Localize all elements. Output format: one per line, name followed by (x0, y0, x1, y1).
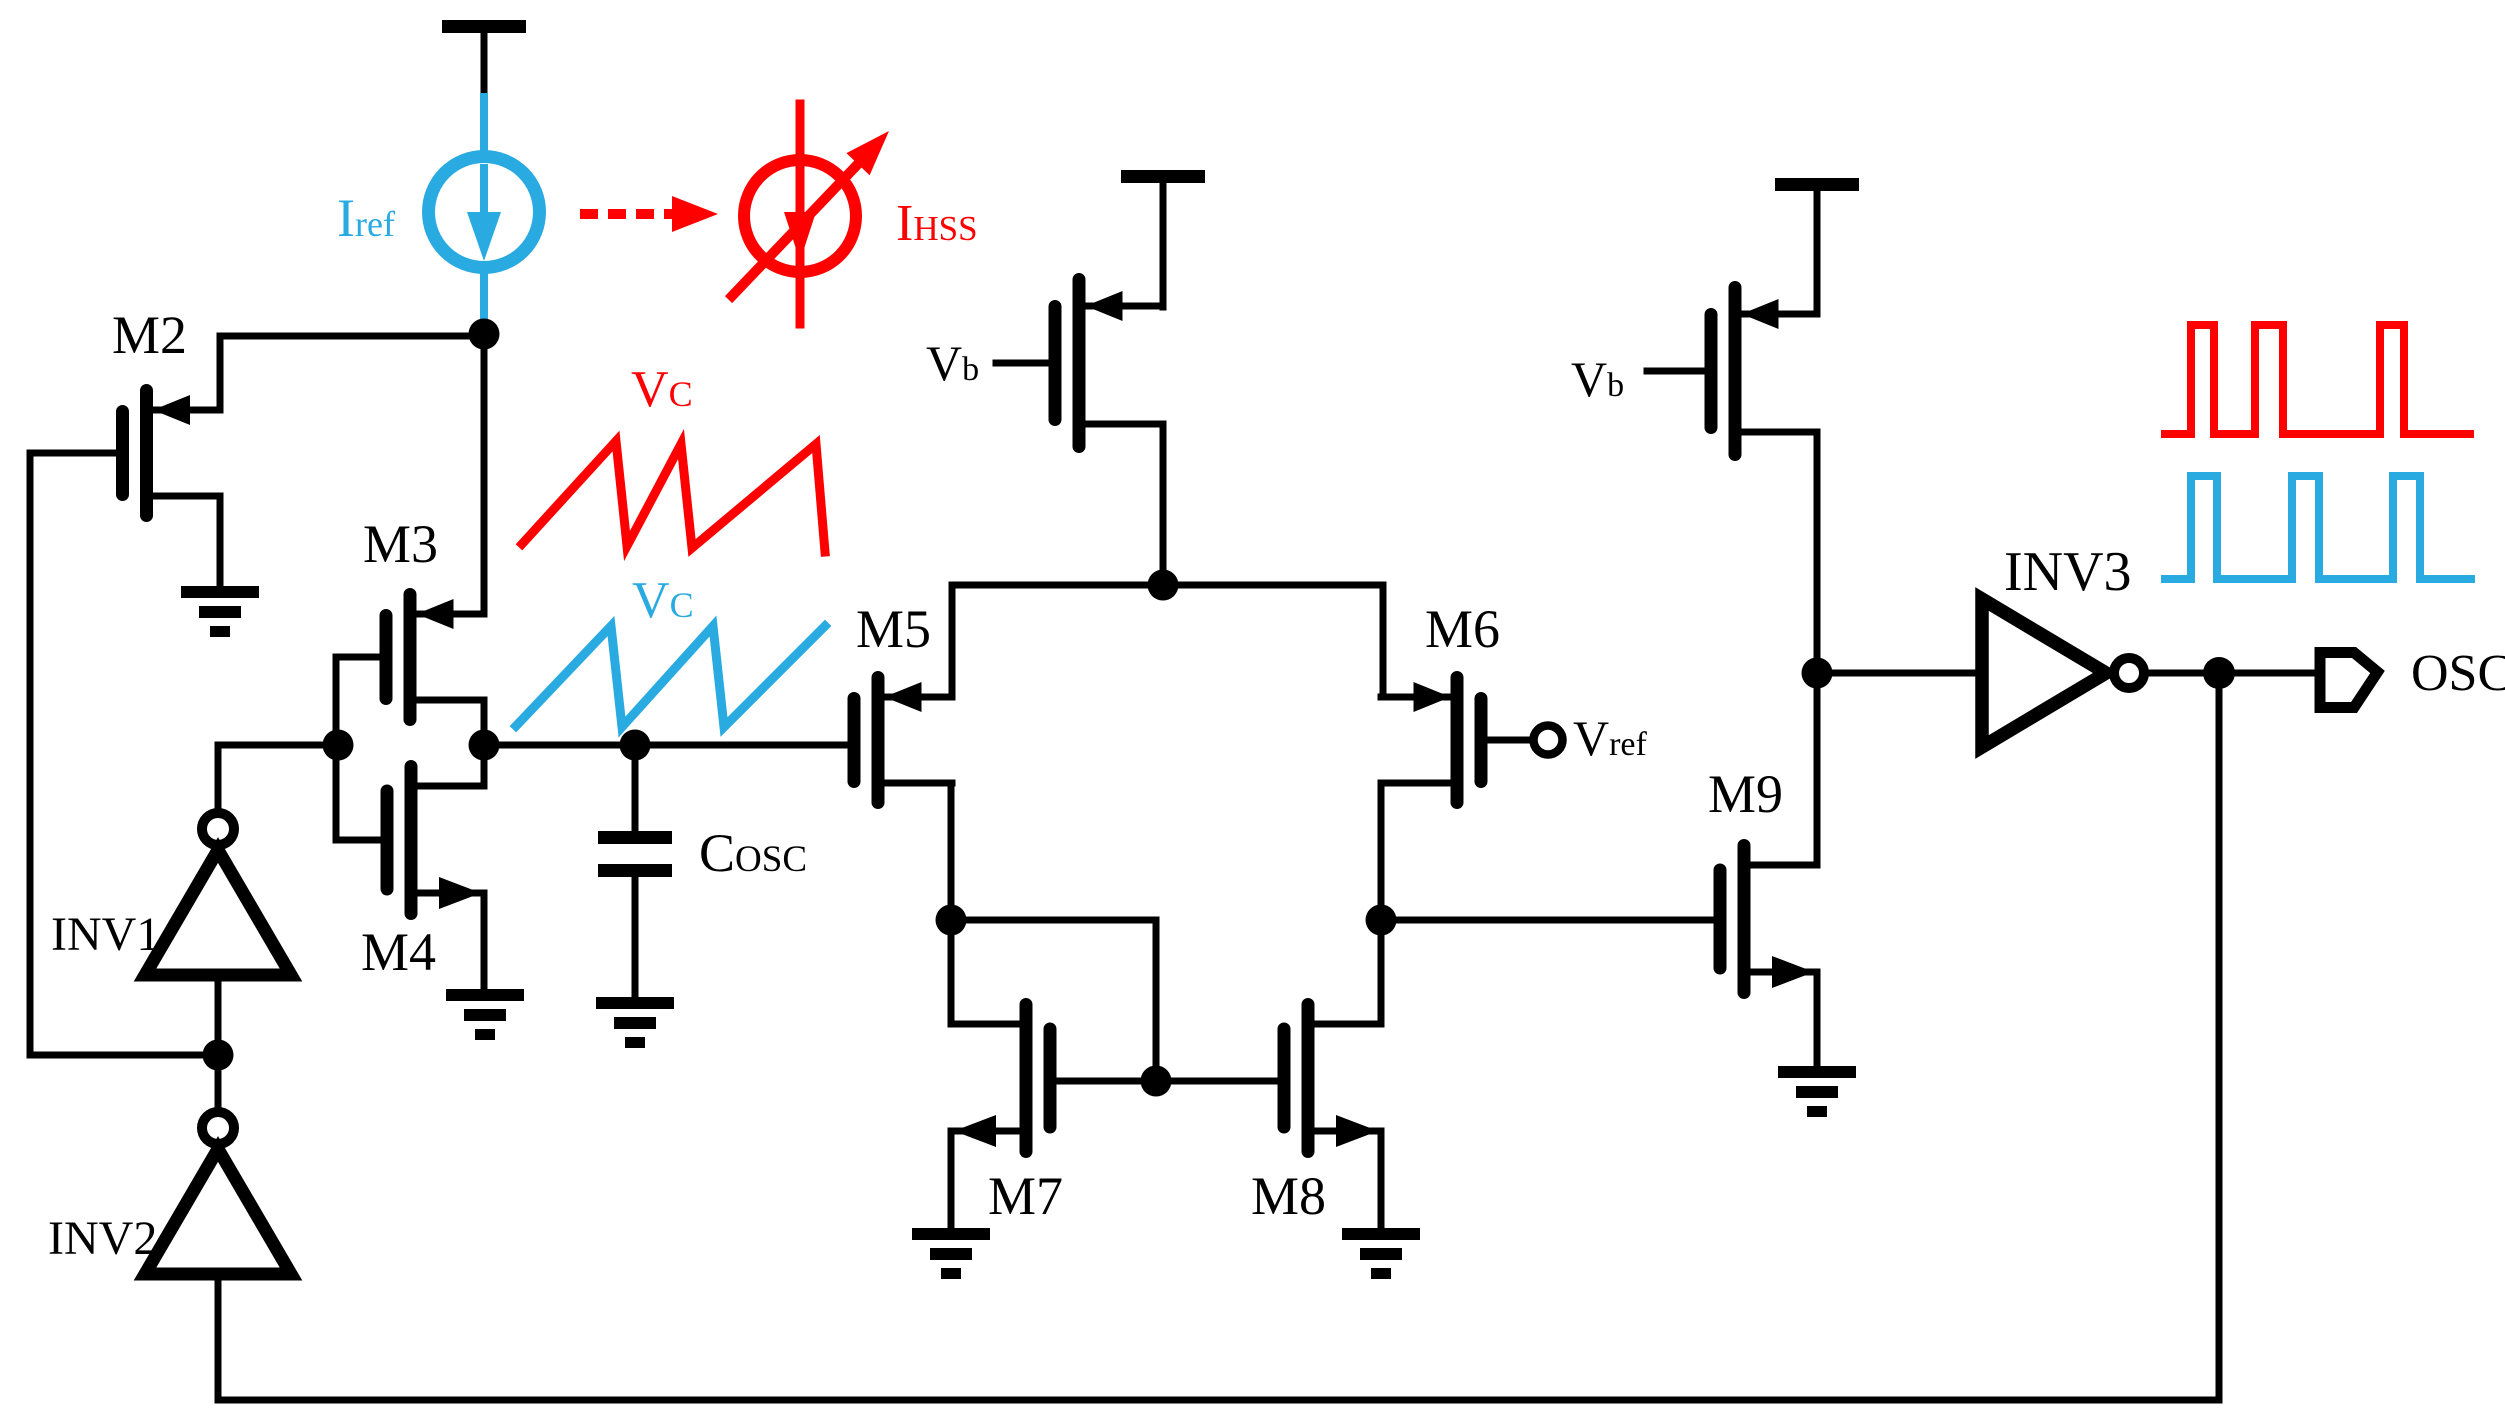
wire node D to M5 gate (Vc) (484, 742, 848, 749)
transistor M9 (1714, 839, 1818, 999)
terminal OSC marker (2320, 653, 2378, 708)
wire INV3 output (2144, 670, 2317, 677)
wire node C to M4 gate (333, 745, 340, 840)
node A (Iref / M2 / M3 drain) (469, 319, 500, 350)
svg-text:INV3: INV3 (2004, 541, 2132, 603)
ground (M2) (181, 586, 259, 637)
transistor M4 (381, 760, 485, 920)
wire Iref bottom (blue) (480, 266, 488, 326)
square waveform OSC (red) (2165, 325, 2470, 434)
dashed red arrow (Iref to IHSS) (580, 196, 718, 232)
svg-text:M5: M5 (856, 599, 931, 659)
transistor M7 (951, 998, 1057, 1158)
inverter INV2 (145, 1112, 291, 1274)
wire Vb mid gate stub (996, 360, 1055, 367)
power rail VDD (top right) (1775, 178, 1859, 314)
wire mirror gate tap (951, 920, 1156, 1081)
ground (M9) (1778, 1066, 1856, 1117)
wire M5 drain down (948, 783, 955, 1024)
wire diff pair tail (952, 585, 1383, 697)
wire node A to M3 (481, 334, 488, 613)
svg-text:M7: M7 (988, 1166, 1063, 1226)
ground (M7) (912, 1228, 990, 1279)
wire M7 source to ground (948, 1131, 955, 1232)
svg-text:OSC: OSC (2411, 645, 2505, 702)
wire M4 source to ground (481, 893, 488, 993)
transistor M5 (848, 671, 953, 809)
wire node J to INV3 (1817, 670, 1978, 677)
svg-text:INV1: INV1 (51, 908, 160, 961)
sawtooth waveform Vc (red) (522, 441, 825, 552)
power rail VDD (top middle) (1121, 170, 1205, 307)
sawtooth waveform Vc (blue) (516, 626, 825, 727)
node G (M5 drain / M7 drain / mirror gate) (936, 905, 967, 936)
variable current source IHSS (732, 104, 889, 324)
transistor Vb bias (right) (1705, 281, 1818, 461)
node C (M3/M4 gates, INV1 out) (323, 730, 354, 761)
wire node A to M2 source (220, 336, 484, 410)
wire feedback loop (INV2 input from OSC) (218, 673, 2219, 1400)
svg-text:M6: M6 (1425, 599, 1500, 659)
wire M9 source to ground (1814, 972, 1821, 1070)
node I (M7/M8 gate junction) (1141, 1066, 1172, 1097)
wire node H to M9 gate (1381, 917, 1714, 924)
wire M6 drain down (1378, 783, 1385, 1024)
wire M8 source to ground (1378, 1131, 1385, 1232)
ground (M8) (1342, 1228, 1420, 1279)
transistor Vb bias (middle) (1049, 273, 1164, 453)
wire M2 drain to ground (217, 496, 224, 590)
inverter INV1 (145, 813, 291, 975)
wire M4 gate stub (336, 837, 381, 844)
node J (INV3 input tap) (1802, 658, 1833, 689)
wire INV1 output to node C (218, 745, 338, 810)
wire M6 gate to Vref (1487, 737, 1532, 744)
wire M7/M8 gate row (1056, 1078, 1277, 1085)
terminal Vref (1534, 726, 1563, 755)
svg-text:M8: M8 (1251, 1166, 1326, 1226)
svg-text:M9: M9 (1708, 764, 1783, 824)
ground (M4) (446, 989, 524, 1040)
svg-text:M4: M4 (361, 922, 436, 982)
node F (diff pair tail) (1148, 570, 1179, 601)
transistor M8 (1278, 998, 1382, 1158)
inverter INV3 (1982, 599, 2144, 747)
ground (Cosc) (596, 997, 674, 1048)
node B (INV1 in / INV2 out / M2 gate) (203, 1040, 234, 1071)
transistor M2 (116, 384, 220, 522)
wire M2 gate feedback (left rail) (30, 453, 203, 1055)
transistor M6 (1381, 671, 1488, 809)
node E (Cosc top) (620, 730, 651, 761)
node K (OSC / feedback) (2203, 657, 2235, 689)
node H (M6 drain / M8 drain / M9 gate) (1366, 905, 1397, 936)
wire Vb right drain to M9 drain (1814, 432, 1821, 865)
wire node D to M4 drain (481, 745, 488, 786)
node D (M3 src / M4 drain / Vc out) (469, 730, 500, 761)
wire M3 gate to node C (336, 657, 379, 745)
wire INV1 input to node B (215, 982, 222, 1042)
wire Vb mid drain to tail node (1160, 424, 1167, 585)
transistor M3 (380, 588, 485, 726)
svg-text:INV2: INV2 (48, 1212, 157, 1265)
capacitor Cosc (598, 745, 672, 1001)
square waveform OSC (blue) (2165, 476, 2471, 579)
wire Iref top (blue) (480, 97, 488, 158)
svg-text:M2: M2 (112, 305, 187, 365)
svg-text:M3: M3 (363, 514, 438, 574)
power rail VDD (top left) (442, 20, 526, 101)
wire M3 source to node D (481, 700, 488, 745)
wire node B to INV2 bubble (215, 1068, 222, 1110)
wire Vb right gate stub (1647, 368, 1711, 375)
current source Iref (429, 157, 540, 268)
